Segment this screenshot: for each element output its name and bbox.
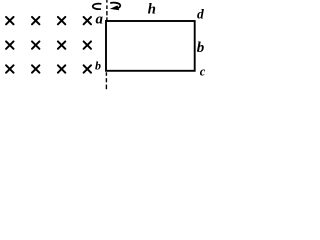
svg-text:d: d (197, 6, 204, 21)
loop rectangle abcd (106, 21, 195, 71)
field cross row2 col2 (32, 41, 39, 48)
rotation axis dashed line (above loop) (106, 0, 108, 21)
rotation axis dashed line (below loop) (105, 72, 107, 89)
field cross row1 col2 (32, 17, 39, 24)
field cross row3 col3 (58, 65, 65, 72)
field cross row2 col1 (6, 41, 13, 48)
rotation arrow right arc (110, 3, 120, 8)
field cross row1 col1 (6, 17, 13, 24)
svg-text:c: c (200, 65, 206, 79)
field cross row2 col3 (58, 41, 65, 48)
field cross row1 col4 (84, 17, 91, 24)
svg-text:b: b (197, 40, 205, 56)
rotation arrow left arc (93, 4, 102, 10)
svg-text:b: b (95, 59, 101, 73)
field cross row3 col2 (32, 65, 39, 72)
rotation arrowhead (110, 5, 119, 10)
svg-text:a: a (96, 11, 104, 27)
field cross row3 col4 (84, 65, 91, 72)
svg-text:h: h (148, 2, 156, 18)
field cross row3 col1 (6, 65, 13, 72)
field cross row2 col4 (84, 41, 91, 48)
field cross row1 col3 (58, 17, 65, 24)
